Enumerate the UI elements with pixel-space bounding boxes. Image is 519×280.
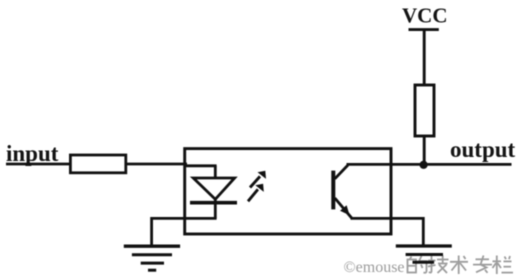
- wire series resistor to optocoupler box: [125, 163, 187, 166]
- optocoupler U1 box: [185, 149, 391, 234]
- wire pull-up resistor to output node: [423, 136, 426, 165]
- svg-text:output: output: [450, 137, 516, 162]
- wire collector to output (output net): [347, 163, 512, 166]
- VCC power rail bar: [409, 28, 439, 31]
- ground right (emitter side): [396, 246, 452, 262]
- resistor series input (horizontal): [70, 155, 125, 173]
- wire VCC bar to pull-up resistor: [423, 30, 426, 86]
- watermark CJK glyph 技: [428, 256, 449, 274]
- resistor pull-up (vertical): [415, 85, 434, 136]
- svg-text:VCC: VCC: [402, 4, 448, 28]
- LED light emission arrow 2: [248, 184, 264, 202]
- wire emitter to right ground: [351, 218, 424, 246]
- phototransistor Q1 base bar: [331, 171, 335, 210]
- watermark CJK glyph 栏: [493, 256, 514, 275]
- node output junction dot: [420, 161, 428, 169]
- svg-text:input: input: [6, 141, 59, 166]
- wire input to series resistor: [6, 163, 71, 166]
- ground left (LED cathode side): [124, 246, 180, 270]
- phototransistor Q1 emitter lead: [335, 198, 352, 218]
- LED D1 triangle: [193, 178, 234, 199]
- phototransistor Q1 collector lead: [335, 165, 348, 179]
- watermark CJK glyph 的: [408, 256, 427, 273]
- LED D1 anode lead: [214, 166, 217, 180]
- watermark CJK glyph 专: [473, 256, 492, 273]
- LED D1 cathode bar: [190, 201, 237, 205]
- LED D1 cathode lead: [214, 199, 217, 218]
- wire LED cathode to left ground: [152, 218, 217, 246]
- LED light emission arrow 1: [250, 171, 266, 188]
- svg-text:©emouse: ©emouse: [344, 259, 405, 276]
- phototransistor Q1 emitter arrow: [340, 205, 350, 215]
- watermark CJK glyph 术: [450, 256, 468, 275]
- wire inside box to LED anode: [184, 164, 217, 167]
